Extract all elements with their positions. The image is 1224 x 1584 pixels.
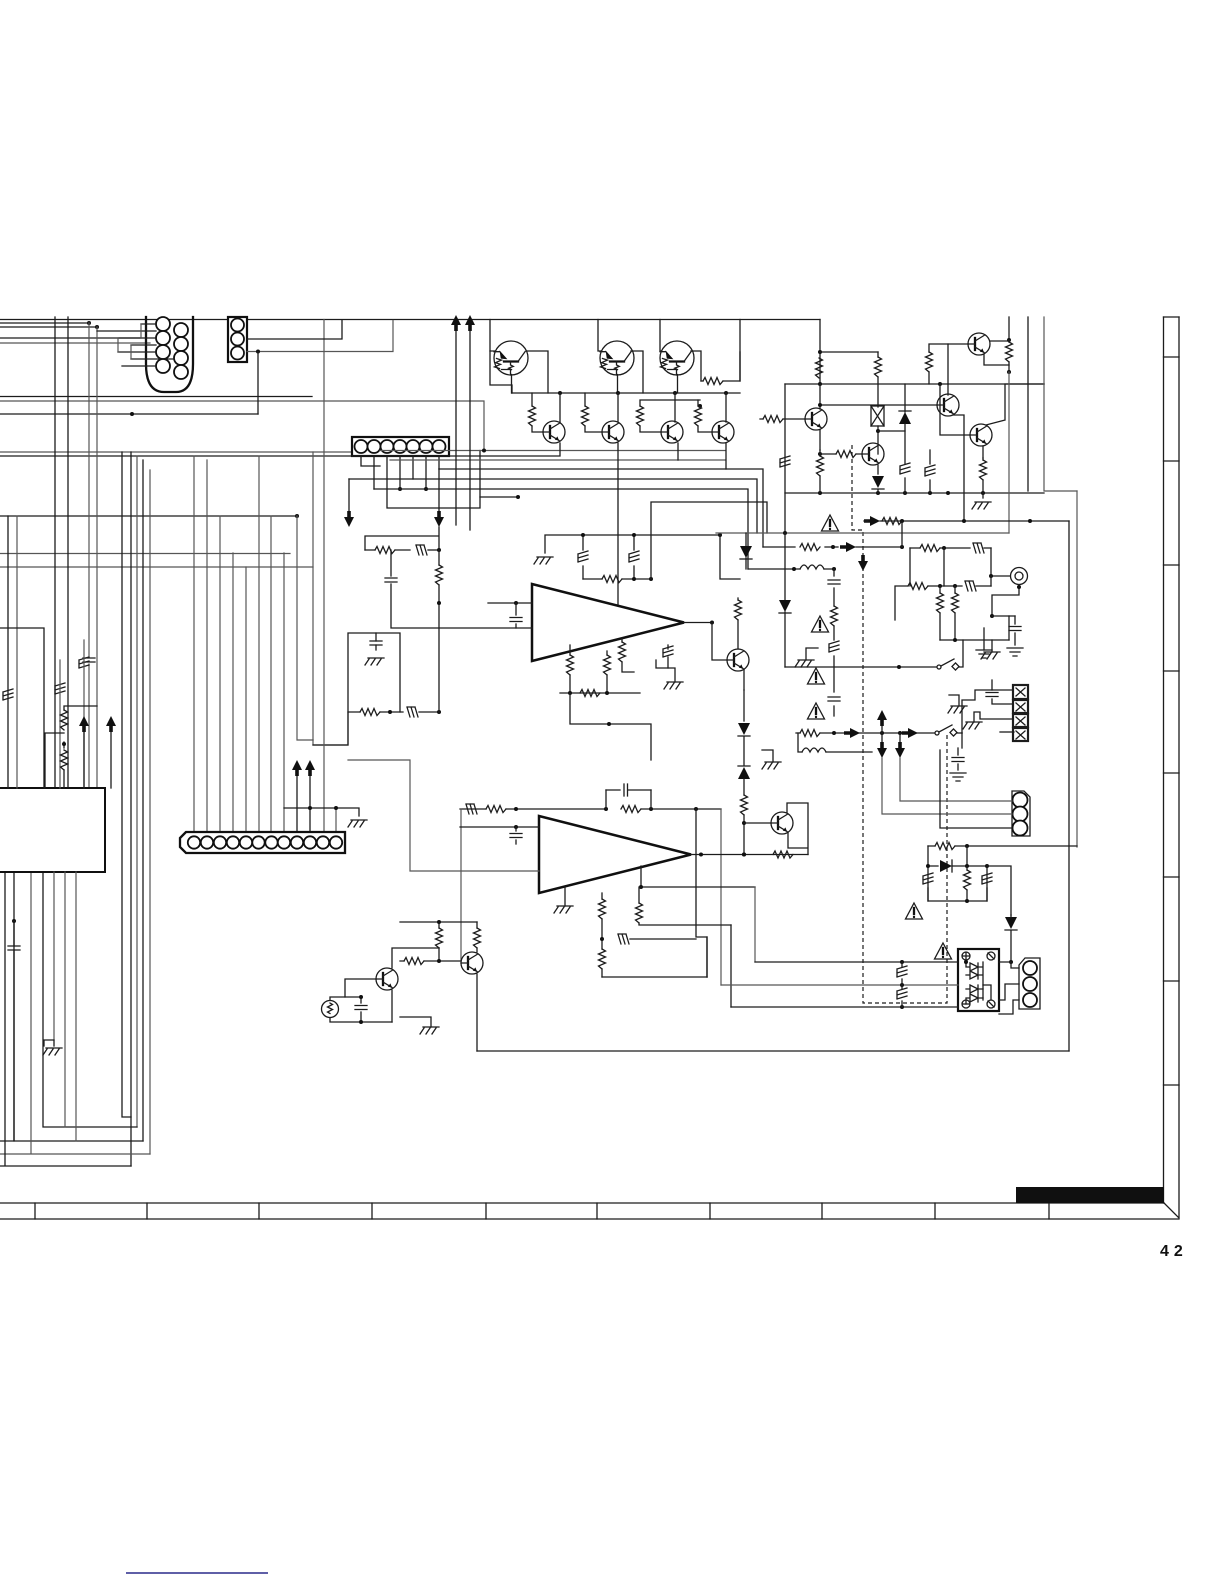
- row y569 inductor: [748, 568, 834, 570]
- wire hatch link: [630, 938, 696, 940]
- Q16 collector wire: [392, 948, 439, 968]
- resistor R-t1: [529, 406, 536, 426]
- connector CN-A oval body: [146, 317, 193, 392]
- U1 input wire b: [391, 550, 532, 628]
- ground G-m5: [948, 706, 967, 713]
- vertical wire x55: [54, 317, 56, 788]
- Q5 collector wire: [617, 393, 619, 422]
- wire x720 down: [720, 535, 740, 579]
- long bus y450: [380, 450, 725, 452]
- capacitor C-u2: [515, 827, 517, 844]
- hatch H-u3a: [901, 962, 903, 985]
- H-r2 wire: [904, 478, 906, 493]
- Q9 emitter diode: [877, 465, 879, 474]
- vertical wire x131: [130, 452, 132, 1166]
- resistor R-r3: [817, 456, 824, 476]
- Q13 resistor above: [735, 600, 742, 620]
- U3 minus circle: [987, 952, 995, 960]
- Q12 wires: [948, 341, 1009, 384]
- page border bottom inner line: [0, 1202, 1164, 1204]
- off-page arrow down m1: [881, 733, 883, 742]
- node dot: [897, 665, 901, 669]
- 12pin feeder wire p9: [296, 773, 298, 832]
- ground G-u1a: [534, 557, 553, 564]
- node dot: [95, 325, 99, 329]
- vertical wire x313: [312, 452, 314, 740]
- node dots: [953, 638, 957, 642]
- long bus y479: [349, 479, 757, 533]
- diode D-m1: [745, 533, 747, 569]
- node dot: [990, 614, 994, 618]
- diode network box: [928, 866, 987, 901]
- IC bottom wire b1: [53, 872, 55, 1040]
- U3 input wire top: [755, 961, 958, 963]
- J1 sleeve wire: [992, 585, 1019, 616]
- switch SW1 row y667: [785, 666, 936, 668]
- connector CN-B wire right: [247, 321, 342, 340]
- node dots: [900, 960, 904, 964]
- resistor R-r6: [1006, 342, 1013, 362]
- Q6 collector wire: [674, 393, 676, 422]
- Q7 emitter wire: [725, 443, 727, 469]
- vertical wire x89: [88, 323, 90, 788]
- resistor R-r1: [816, 358, 823, 378]
- wire bus y452: [0, 451, 352, 453]
- U1 below resistor a: [569, 645, 571, 693]
- wire bus y323: [0, 322, 89, 324]
- IC feed wire xd: [59, 660, 61, 788]
- H-r3 wire: [929, 450, 931, 493]
- U3 input wire bottom: [731, 1006, 958, 1008]
- ground G-m4: [950, 773, 966, 781]
- ground G-12pin: [348, 820, 367, 827]
- connector CN-D body 12pin: [180, 832, 345, 853]
- resistor R-ic2: [61, 750, 68, 770]
- IC feed wire xb: [16, 516, 18, 788]
- 12pin feeder wire p2: [206, 460, 208, 832]
- resistor R-m3 vertical: [954, 586, 956, 640]
- wire bus y401: [0, 401, 484, 451]
- collector bus y393: [512, 392, 740, 394]
- U3 slash bottom: [987, 1000, 995, 1008]
- resistor R-o1: [438, 922, 440, 961]
- row y733: [796, 732, 934, 734]
- 12pin feeder wire p8: [283, 553, 285, 832]
- staircase wire y1166: [0, 872, 131, 1166]
- off-page arrow up m: [877, 710, 887, 726]
- R-r6 wires: [1008, 340, 1010, 372]
- power arrow up a: [451, 315, 461, 331]
- diode D-m2: [784, 533, 786, 667]
- 12pin feeder wire p12: [335, 808, 337, 832]
- wire bus y456: [0, 455, 352, 457]
- IC feed wire xe: [83, 640, 85, 788]
- node dot: [130, 412, 134, 416]
- node dot: [600, 937, 604, 941]
- Q13 emitter wire: [743, 670, 745, 690]
- node dot: [607, 722, 611, 726]
- capacitor C-m3: [957, 748, 959, 770]
- hatch H-ic1: [3, 689, 13, 700]
- node dot: [12, 919, 16, 923]
- CN-E wire pin2: [882, 758, 1012, 814]
- CN-F pins: [1023, 961, 1037, 975]
- cluster left vertical x785: [784, 384, 786, 533]
- Q8 base wire: [760, 418, 805, 420]
- enclosure vertical x1069: [1068, 521, 1070, 1051]
- CN-E wire pin1: [900, 758, 1012, 801]
- node dots y393: [558, 391, 562, 395]
- connector CN-B body: [228, 317, 247, 362]
- vertical x731: [730, 925, 732, 1007]
- off-page arrow down m2: [899, 733, 901, 742]
- page border right top cap: [1164, 316, 1180, 318]
- node dot: [424, 487, 428, 491]
- vertical wire x150: [149, 470, 151, 1154]
- staircase wire y1154: [0, 872, 150, 1154]
- IC block rectangle: [0, 788, 105, 872]
- node dot: [698, 404, 702, 408]
- 12pin feeder wire p4: [232, 553, 234, 832]
- IC feed wire xa: [7, 516, 9, 788]
- Q3 feed wire: [660, 320, 678, 394]
- node dot: [87, 321, 91, 325]
- node dot: [437, 920, 441, 924]
- loop wire top x707: [706, 937, 708, 977]
- node dot: [256, 350, 260, 354]
- Q9 base resistor: [836, 451, 856, 458]
- staircase wire y1127: [43, 872, 137, 1127]
- X1 top wire: [330, 997, 361, 1000]
- Q8 collector wire: [819, 384, 821, 409]
- vertical x696: [696, 809, 707, 977]
- wire Q1 to bus: [490, 351, 512, 393]
- CN-E pins: [1013, 793, 1028, 808]
- off-page arrow up ic-b: [106, 716, 116, 732]
- node dot: [1009, 960, 1013, 964]
- wire ground stem: [44, 1040, 54, 1046]
- warning triangle W4: [808, 703, 825, 719]
- R-t3 wires: [640, 400, 700, 432]
- Q3 collector wire right: [691, 351, 701, 381]
- CN-C pin wire 7: [438, 456, 440, 469]
- speaker connector CN-G: [1013, 685, 1028, 741]
- hatch H-cn: [416, 545, 427, 555]
- transistor Q1 big: [494, 341, 528, 375]
- transistor Q13: [727, 649, 749, 671]
- footer link line: [126, 1572, 268, 1574]
- node dot: [742, 821, 746, 825]
- base row y961: [400, 960, 461, 962]
- CN-C pin wire 3: [387, 451, 480, 509]
- capacitor C-m4: [992, 680, 1014, 704]
- node dots: [699, 853, 703, 857]
- corner wire to x348: [313, 713, 348, 745]
- page border corner diagonal: [1164, 1203, 1179, 1218]
- 12pin feeder wire p3: [219, 516, 221, 832]
- node dot: [965, 899, 969, 903]
- warning triangle W1: [822, 515, 839, 531]
- R-r5 wires: [929, 344, 948, 384]
- U2 ground: [554, 906, 573, 913]
- wire to CN-G pin4: [1000, 731, 1014, 733]
- transistor Q4: [543, 421, 565, 443]
- cluster top bus y384: [785, 383, 1044, 385]
- Q10 collector wire: [947, 384, 949, 395]
- left resistor chain x439: [438, 550, 440, 712]
- R-t1 wires: [526, 351, 548, 432]
- CN-C pin wire 6: [425, 456, 427, 489]
- Q7 collector wire: [725, 393, 727, 422]
- U2 input wire b: [348, 760, 539, 871]
- U2 output wire: [691, 854, 808, 856]
- diode D-n1 right: [928, 865, 987, 867]
- node dots: [359, 995, 363, 999]
- Q6 emitter wire: [677, 443, 679, 460]
- Q1 feed wire: [490, 320, 495, 352]
- page border right inner line: [1163, 317, 1165, 1203]
- coil row y752: [798, 733, 872, 752]
- U1 top cluster rail: [545, 535, 720, 553]
- node dot: [437, 548, 441, 552]
- off-page arrow up pin9: [292, 760, 302, 776]
- long bus y469: [439, 469, 763, 547]
- transistor Q14: [771, 812, 793, 834]
- network top resistor: [928, 845, 1077, 847]
- U2 below resistor chain: [601, 893, 603, 977]
- 12pin feeder wire p11: [323, 320, 325, 833]
- hatch H-ic2: [55, 683, 65, 694]
- wire net to diode: [987, 866, 1011, 915]
- resistor R-t3: [637, 406, 644, 426]
- IC bottom wire b3: [75, 872, 77, 1141]
- wire bus y343: [0, 342, 150, 344]
- long bus y489: [374, 489, 748, 569]
- wire bus y567: [0, 566, 313, 568]
- hatch H-n1: [923, 873, 933, 884]
- resistor R-r2: [875, 357, 882, 377]
- wire bus y397: [0, 396, 312, 398]
- hatch H-u3b: [901, 985, 903, 1007]
- node dots: [938, 584, 942, 588]
- long vertical x1077: [1076, 491, 1078, 847]
- wire top right entry: [739, 320, 741, 382]
- off-page arrow up ic-a: [79, 716, 89, 732]
- U1 hatch a: [582, 535, 584, 579]
- transistor Q9: [862, 443, 884, 465]
- resistor R-t5 horizontal: [703, 378, 723, 385]
- resistor R-m2 vertical: [939, 586, 941, 640]
- switch SW1: [937, 665, 941, 669]
- wire x910 x944: [910, 548, 944, 586]
- resistor row y548 right: [910, 547, 991, 549]
- ground G-m6: [963, 722, 982, 729]
- vertical wire x143: [142, 460, 144, 1141]
- node dots: [792, 567, 796, 571]
- power arrow stem a: [455, 331, 457, 525]
- R-r2 wires: [877, 352, 879, 407]
- J1 wires: [991, 548, 1010, 576]
- wire CN-B down: [257, 352, 259, 415]
- ground G-a: [365, 658, 384, 665]
- X1 bottom wire: [330, 1018, 392, 1022]
- wire arrow stem: [83, 732, 85, 788]
- ground G-o1: [420, 1027, 439, 1034]
- resistor R-fb1: [486, 806, 506, 813]
- node dot: [783, 531, 787, 535]
- node dots: [604, 807, 608, 811]
- U2 fb wire y887: [641, 866, 755, 887]
- resistor row y586 right: [895, 586, 991, 620]
- wire after hatch: [428, 549, 439, 551]
- hatch H-r1: [780, 456, 790, 467]
- node dots y808: [308, 806, 312, 810]
- connector CN-B pins: [231, 319, 244, 332]
- phone jack J1: [1011, 568, 1028, 585]
- U1 output wire: [684, 622, 712, 624]
- off-page arrow down dashed: [858, 555, 868, 571]
- node dot: [295, 514, 299, 518]
- R-t2 wires: [585, 393, 602, 432]
- resistor R-r4: [980, 460, 987, 480]
- U1 below resistor b: [606, 651, 608, 693]
- dashed service line top: [852, 445, 947, 1003]
- hatch H-u2in: [407, 707, 418, 717]
- node dot: [1007, 338, 1011, 342]
- right feeder x1009: [1008, 317, 1010, 340]
- 12pin feeder wire p7: [270, 516, 272, 832]
- Q16 base wire: [345, 979, 376, 997]
- transistor Q5: [602, 421, 624, 443]
- resistor R-u2o: [773, 851, 793, 858]
- resistor R-dc: [741, 795, 748, 815]
- node dot: [514, 807, 518, 811]
- connector CN-D pins: [188, 836, 200, 848]
- node dots: [831, 545, 835, 549]
- transistor Q10: [937, 394, 959, 416]
- warning triangle W2: [812, 616, 829, 632]
- wire bus y338: [0, 337, 141, 339]
- transistor Q7: [712, 421, 734, 443]
- IC bottom wire b2: [64, 872, 66, 1127]
- page border bottom tick marks: [35, 1203, 1049, 1219]
- wire bus y516: [0, 515, 297, 517]
- vertical wire x122: [122, 452, 131, 1117]
- node dot: [62, 742, 66, 746]
- Q11 base wire: [940, 384, 970, 435]
- capacitor C-o1: [360, 997, 362, 1022]
- cluster bottom bus y493: [785, 492, 1044, 494]
- fuse F1: [871, 406, 884, 426]
- power arrow up b: [465, 315, 475, 331]
- capacitor C-m2: [1014, 616, 1016, 645]
- wire resistor run y713: [348, 711, 439, 713]
- connector CN-C body 7pin: [352, 437, 449, 456]
- cluster box above 12pin right: [313, 633, 400, 745]
- capacitor C-ic1: [83, 658, 95, 662]
- node dot: [900, 1005, 904, 1009]
- Q2 feed wire: [598, 320, 618, 394]
- corner wire from top right: [651, 502, 767, 579]
- Q2 collector wire right: [631, 351, 643, 393]
- ground G-m3: [981, 652, 1000, 659]
- feed wire x820: [819, 320, 821, 385]
- node dot: [514, 601, 518, 605]
- Q5 emitter wire: [617, 443, 619, 613]
- Q11 collector wire: [986, 384, 1044, 425]
- wire arrow stem: [110, 732, 112, 788]
- node dot: [388, 710, 392, 714]
- node dot: [437, 601, 441, 605]
- Q10 base wire: [820, 404, 937, 406]
- hatch H-r3: [925, 465, 935, 476]
- node dot: [718, 533, 722, 537]
- Q13 base wire: [712, 623, 727, 661]
- resistor R-ic1: [61, 710, 68, 730]
- chain x834: [833, 569, 835, 716]
- connector CN-C pins: [355, 440, 368, 453]
- transistor Q12: [968, 333, 990, 355]
- U1 hatch b: [633, 535, 635, 579]
- CN-E wire pin3: [940, 750, 1012, 828]
- U1 input wire a: [488, 602, 532, 604]
- U3 input wire mid: [721, 984, 958, 986]
- long bus y497: [480, 496, 518, 498]
- transistor Q8: [805, 408, 827, 430]
- wire resistor run y550: [365, 549, 410, 551]
- CN-C pin wire 1: [361, 456, 380, 466]
- capacitor C-u1: [515, 603, 517, 628]
- wire y616: [992, 615, 1015, 617]
- R-r3 wires: [819, 450, 821, 493]
- resistor R-a horizontal: [360, 709, 380, 716]
- transistor Q6: [661, 421, 683, 443]
- wire bus y414: [0, 413, 258, 415]
- ground G-r2: [976, 650, 992, 658]
- black title block bar: [1016, 1187, 1164, 1203]
- ground G-icb: [43, 1048, 62, 1055]
- R-r4 wires: [982, 458, 984, 498]
- rail y640: [940, 639, 1009, 641]
- U3 plus symbol: [962, 952, 970, 960]
- off-page arrow up pin10: [305, 760, 315, 776]
- resistor R-r5: [926, 352, 933, 372]
- transistor Q16: [376, 968, 398, 990]
- wire U3 out top: [999, 962, 1019, 968]
- Q4 collector wire: [559, 393, 561, 422]
- CN-C pin wire 2: [373, 456, 375, 489]
- op-amp U2 triangle: [539, 816, 691, 893]
- node dot: [965, 844, 969, 848]
- wire y724 link: [570, 693, 651, 760]
- connector CN-A pin wire left verticals: [118, 324, 141, 359]
- ground G-m2 bars: [1007, 648, 1023, 656]
- capacitor C-icb: [8, 946, 20, 950]
- wire top bus y320: [0, 319, 820, 321]
- capacitor C-a: [370, 641, 382, 645]
- U1 fb resistor row y579: [602, 576, 622, 583]
- staircase wire y1141: [0, 872, 143, 1141]
- node dot: [900, 983, 904, 987]
- power arrow stem b: [469, 331, 471, 530]
- connector CN-A pins: [156, 317, 170, 331]
- wire CN-B to mesh gray: [247, 321, 393, 352]
- node dots: [581, 533, 585, 537]
- U2 bottom rail y977: [602, 976, 707, 978]
- right feeder x1028: [1027, 317, 1029, 491]
- osc block top rail: [400, 921, 477, 923]
- diode D-r1 up: [899, 412, 911, 424]
